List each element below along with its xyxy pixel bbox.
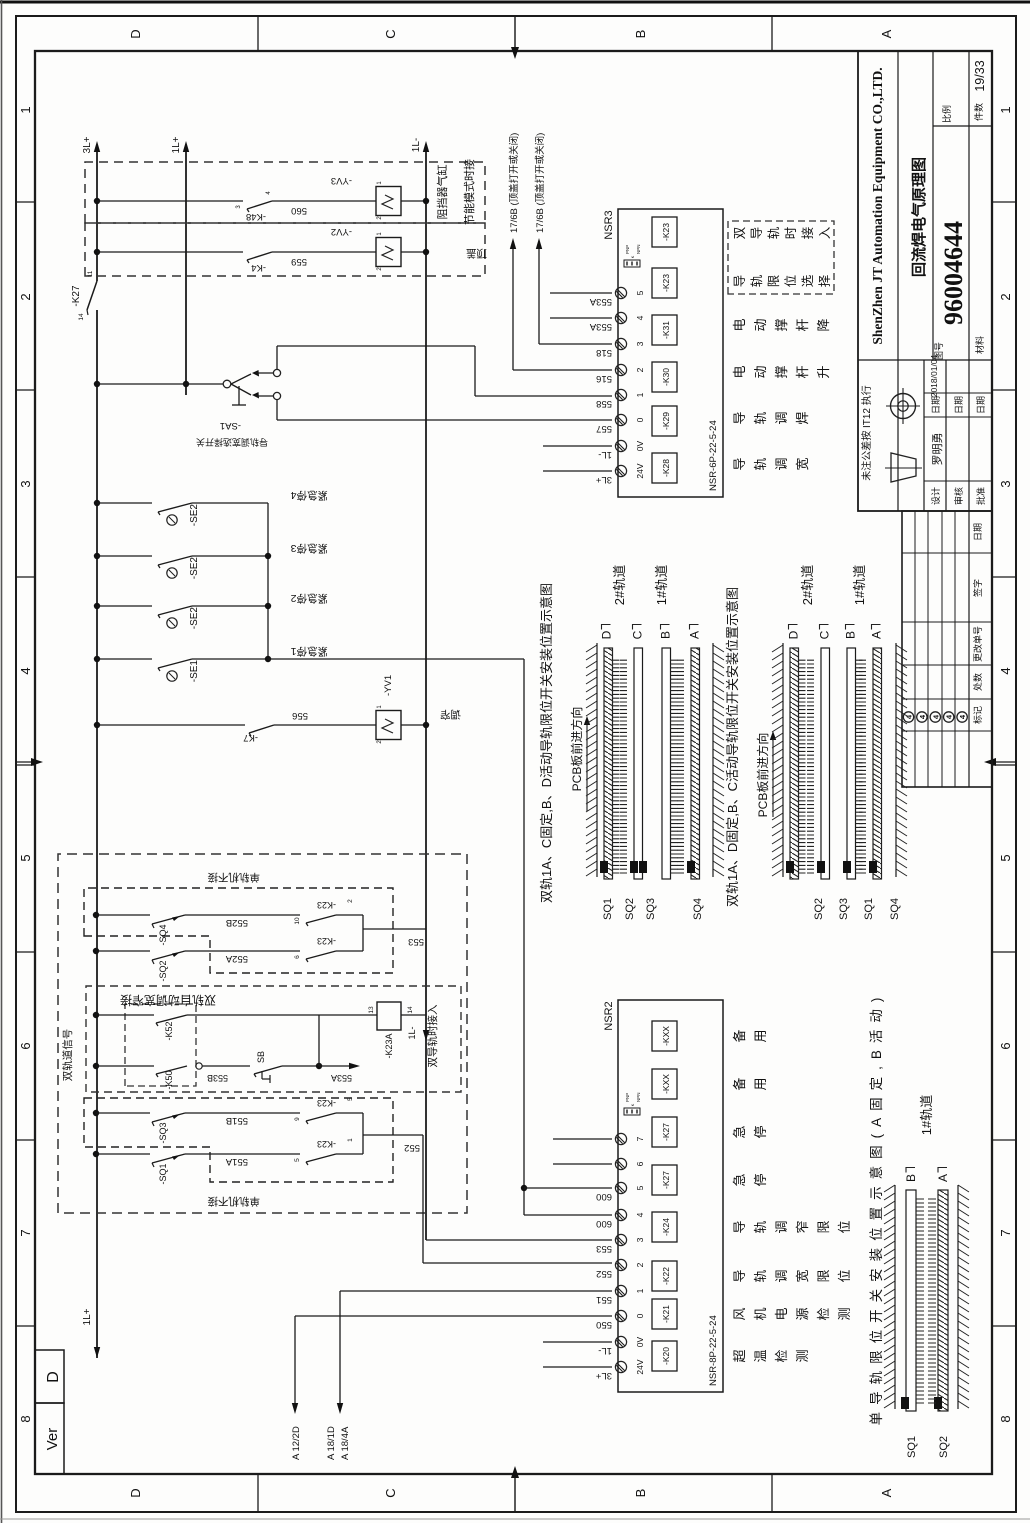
svg-text:测: 测 [837, 1307, 852, 1320]
svg-text:NSR3: NSR3 [603, 210, 615, 239]
svg-text:4: 4 [958, 714, 967, 719]
svg-text:调: 调 [774, 457, 789, 470]
svg-text:选: 选 [801, 274, 815, 287]
wire 558 from -SA1 [276, 346, 278, 369]
column ticks top [16, 1325, 35, 1327]
svg-text:撑: 撑 [774, 318, 789, 331]
svg-text:3L+: 3L+ [82, 136, 93, 153]
svg-text:4: 4 [635, 1212, 645, 1217]
svg-text:B: B [633, 30, 648, 39]
svg-text:0: 0 [635, 417, 645, 422]
sensor collector line [267, 503, 269, 659]
svg-text:-SE2: -SE2 [189, 557, 200, 580]
tie to -K52 branch [318, 1015, 320, 1066]
svg-text:PCB板前进方向: PCB板前进方向 [569, 707, 584, 792]
553A exit arrow [319, 1065, 352, 1067]
svg-text:-SA1: -SA1 [220, 420, 241, 431]
svg-text:电: 电 [732, 365, 747, 378]
svg-text:SQ1: SQ1 [863, 898, 875, 920]
rail B bar [847, 648, 856, 879]
svg-text:杆: 杆 [795, 365, 810, 378]
rail A bar [691, 648, 700, 879]
svg-text:1L-: 1L- [407, 1026, 417, 1039]
svg-text:紧急停2: 紧急停2 [291, 592, 328, 605]
rail 1L- (y=426) [425, 149, 427, 1240]
relay coil -K31 [652, 315, 677, 345]
svg-text:1L+: 1L+ [82, 1308, 93, 1325]
NSR2 stub wires 24V 0V [543, 1366, 612, 1368]
svg-text:-K23A: -K23A [384, 1033, 394, 1058]
relay coil -K28 [652, 453, 677, 483]
svg-text:553A: 553A [589, 296, 612, 307]
rail C bar [634, 648, 643, 879]
wire 552 output [363, 1134, 423, 1136]
relay coil -K29 [652, 406, 677, 436]
svg-text:2: 2 [377, 216, 383, 220]
svg-text:用: 用 [753, 1077, 768, 1090]
terminal NSR3:5 [615, 287, 626, 298]
svg-text:导轨调宽选择开关: 导轨调宽选择开关 [196, 437, 268, 448]
wire 551 to arrow A 18 [340, 1290, 612, 1292]
sheet edge artifacts [0, 1, 1030, 4]
svg-text:B: B [904, 1174, 918, 1182]
svg-text:导: 导 [733, 275, 747, 288]
svg-text:入: 入 [818, 226, 832, 239]
svg-text:限: 限 [816, 1269, 831, 1282]
svg-text:7: 7 [18, 1229, 33, 1236]
svg-text:D: D [128, 1488, 143, 1497]
svg-text:2: 2 [998, 293, 1013, 300]
rail A bar [873, 648, 882, 879]
svg-text:3: 3 [635, 1237, 645, 1242]
svg-text:14: 14 [407, 1006, 414, 1014]
svg-text:A: A [879, 29, 894, 38]
rail D bar [790, 648, 799, 879]
svg-text:551A: 551A [225, 1156, 248, 1167]
svg-text:SQ4: SQ4 [889, 898, 901, 920]
svg-text:轨: 轨 [767, 226, 781, 239]
svg-text:设计: 设计 [930, 487, 941, 505]
svg-text:5: 5 [294, 1158, 301, 1162]
svg-text:源: 源 [795, 1307, 810, 1320]
svg-text:双导轨时接入: 双导轨时接入 [426, 1004, 439, 1067]
svg-text:节能模式时接: 节能模式时接 [462, 159, 476, 225]
terminal NSR2:5 [615, 1182, 626, 1193]
svg-text:19/33: 19/33 [973, 60, 987, 91]
svg-text:紧急停1: 紧急停1 [291, 645, 328, 658]
svg-text:1L-: 1L- [598, 1345, 612, 1356]
svg-text:SQ1: SQ1 [906, 1436, 918, 1458]
fixed rail hatch line [895, 643, 897, 877]
svg-text:3: 3 [635, 341, 645, 346]
dashed box2 双轨自动调宽窄接 [86, 986, 461, 1092]
svg-text:-K23: -K23 [317, 1098, 336, 1108]
svg-text:1#轨道: 1#轨道 [852, 565, 867, 605]
rail B bar [906, 1190, 916, 1411]
svg-text:接: 接 [800, 226, 815, 239]
svg-text:5: 5 [635, 290, 645, 295]
branch -SQ4 wire 552B [93, 912, 99, 918]
svg-text:1L+: 1L+ [171, 136, 182, 153]
svg-text:检: 检 [774, 1349, 789, 1362]
svg-text:回流焊电气原理图: 回流焊电气原理图 [910, 157, 928, 277]
fixed rail hatch line [894, 1185, 896, 1409]
svg-text:600: 600 [596, 1191, 612, 1202]
svg-text:6: 6 [635, 1161, 645, 1166]
svg-text:557: 557 [596, 423, 612, 434]
svg-text:C: C [383, 1488, 398, 1497]
svg-text:C: C [818, 630, 832, 639]
chain down to 600 run [268, 658, 524, 660]
rail B bar [662, 648, 671, 879]
svg-text:10: 10 [294, 917, 301, 925]
svg-text:轨: 轨 [753, 1220, 768, 1233]
svg-text:3L+: 3L+ [595, 1370, 612, 1381]
dashed box YV3 [85, 162, 485, 223]
svg-text:罗明勇: 罗明勇 [931, 433, 944, 466]
svg-text:4: 4 [918, 714, 927, 719]
svg-text:备: 备 [732, 1077, 747, 1090]
revision boxes Ver / D [35, 1403, 64, 1474]
svg-text:动: 动 [753, 318, 768, 331]
svg-text:PNP: PNP [625, 245, 630, 254]
svg-text:553: 553 [408, 936, 424, 947]
wire 553 continues on 1L- level to terminal [426, 1239, 612, 1241]
svg-text:-YV2: -YV2 [331, 226, 352, 237]
svg-text:杆: 杆 [795, 318, 810, 331]
svg-text:-K23: -K23 [661, 223, 671, 241]
wire 552 jog [422, 1135, 424, 1263]
relay coil -K27 [652, 1117, 677, 1147]
svg-text:553A: 553A [589, 321, 612, 332]
relay coil -K23 [652, 217, 677, 247]
svg-text:C: C [383, 29, 398, 38]
svg-text:D: D [128, 29, 143, 38]
branch -SQ3 wire 551B [93, 1110, 99, 1116]
svg-text:导: 导 [732, 1220, 747, 1233]
svg-text:558: 558 [596, 398, 612, 409]
svg-text:0V: 0V [635, 1336, 645, 1347]
svg-text:C: C [631, 630, 645, 639]
svg-text:4: 4 [18, 667, 33, 674]
branch -YV3 [94, 198, 100, 204]
svg-text:552A: 552A [225, 953, 248, 964]
svg-text:2: 2 [635, 1262, 645, 1267]
terminal NSR3:24V [615, 465, 626, 476]
svg-text:5: 5 [635, 1185, 645, 1190]
svg-text:550: 550 [596, 1319, 612, 1330]
svg-text:D: D [600, 630, 614, 639]
svg-text:双轨自动调宽窄接: 双轨自动调宽窄接 [120, 993, 216, 1008]
svg-text:轨: 轨 [753, 411, 768, 424]
SB pushbutton [254, 1066, 282, 1074]
svg-text:-K52: -K52 [164, 1021, 174, 1040]
svg-text:急: 急 [732, 1125, 747, 1138]
terminal NSR2:0V [615, 1336, 626, 1347]
svg-text:温: 温 [753, 1349, 768, 1362]
svg-text:1: 1 [377, 232, 383, 236]
svg-text:A 18/4A: A 18/4A [340, 1426, 351, 1460]
revision circles [903, 712, 913, 722]
PNP/NPN dip icon NSR2 [624, 1108, 640, 1115]
svg-text:1L-: 1L- [598, 449, 612, 460]
svg-text:5: 5 [998, 854, 1013, 861]
svg-text:-SE2: -SE2 [189, 607, 200, 630]
svg-text:位: 位 [837, 1269, 852, 1282]
svg-text:调: 调 [774, 411, 789, 424]
svg-text:-K23: -K23 [317, 900, 336, 910]
svg-text:-KXX: -KXX [661, 1074, 671, 1094]
svg-text:553: 553 [596, 1243, 612, 1254]
svg-text:-KXX: -KXX [661, 1026, 671, 1046]
svg-text:1L-: 1L- [411, 138, 422, 152]
svg-text:4: 4 [931, 714, 940, 719]
rail 3L+ (y=97) [96, 310, 98, 1358]
svg-text:NSR-8P-22-5-24: NSR-8P-22-5-24 [708, 1315, 719, 1386]
svg-text:4: 4 [998, 667, 1013, 674]
svg-text:-YV3: -YV3 [331, 175, 352, 186]
svg-text:4: 4 [945, 714, 954, 719]
relay coil -K30 [652, 362, 677, 392]
svg-text:Ver: Ver [44, 1428, 61, 1451]
svg-text:0V: 0V [635, 440, 645, 451]
projection symbol cone [891, 453, 916, 482]
svg-text:日期: 日期 [976, 396, 986, 414]
dashed box1 单轨机不接 (SQ4/SQ2) [84, 888, 393, 973]
svg-text:停: 停 [753, 1173, 768, 1186]
svg-text:24V: 24V [635, 1359, 645, 1374]
svg-text:B: B [659, 631, 673, 639]
svg-text:更改单号: 更改单号 [972, 626, 983, 662]
rail D bar [604, 648, 613, 879]
svg-text:-SQ1: -SQ1 [158, 1163, 168, 1184]
svg-text:SQ3: SQ3 [645, 898, 657, 920]
svg-text:6: 6 [294, 955, 301, 959]
svg-text:停: 停 [753, 1125, 768, 1138]
svg-text:电: 电 [774, 1307, 789, 1320]
svg-text:SQ4: SQ4 [692, 898, 704, 920]
svg-text:PNP: PNP [625, 1093, 630, 1102]
svg-text:NPN: NPN [636, 244, 641, 254]
svg-text:553A: 553A [331, 1073, 352, 1083]
box2: -K50 branch [93, 1063, 99, 1069]
svg-text:导: 导 [750, 227, 764, 240]
svg-text:-K30: -K30 [661, 368, 671, 386]
terminal block NSR3 [618, 209, 723, 497]
terminal NSR3:0V [615, 440, 626, 451]
svg-text:双: 双 [733, 226, 747, 239]
svg-text:急: 急 [732, 1173, 747, 1186]
svg-text:-SE2: -SE2 [189, 504, 200, 527]
svg-text:7: 7 [635, 1136, 645, 1141]
contact -K27 in rail [87, 281, 97, 310]
svg-text:调: 调 [774, 1220, 789, 1233]
svg-text:电: 电 [732, 318, 747, 331]
svg-text:2: 2 [635, 367, 645, 372]
svg-text:3: 3 [18, 480, 33, 487]
rail 1L+ (y=186) [185, 149, 187, 395]
svg-text:SB: SB [256, 1051, 266, 1063]
terminal NSR2:2 [615, 1259, 626, 1270]
svg-text:备: 备 [732, 1029, 747, 1042]
svg-text:-K27: -K27 [661, 1171, 671, 1189]
sensor branch -SE1 紧急停1 [94, 656, 100, 662]
svg-text:-K50: -K50 [164, 1070, 174, 1089]
svg-text:2: 2 [18, 293, 33, 300]
rail A bar [938, 1190, 948, 1411]
svg-text:标记: 标记 [972, 706, 983, 724]
svg-text:552: 552 [596, 1268, 612, 1279]
title block lines [897, 51, 899, 511]
svg-text:B: B [844, 631, 858, 639]
svg-text:单轨机不接: 单轨机不接 [207, 1195, 260, 1208]
svg-text:日期: 日期 [954, 396, 964, 414]
box2: -K52 branch [93, 1012, 99, 1018]
branch -SQ1 wire 551A [93, 1151, 99, 1157]
svg-text:-K29: -K29 [661, 412, 671, 430]
svg-text:D: D [45, 1371, 62, 1383]
-SA1 selector switch [94, 381, 100, 387]
NSR2 stub wires 6 7 [553, 1163, 612, 1165]
svg-text:调: 调 [774, 1269, 789, 1282]
terminal NSR2:3 [615, 1234, 626, 1245]
svg-text:5: 5 [347, 1097, 354, 1101]
svg-text:3: 3 [236, 205, 242, 209]
svg-text:1: 1 [347, 1138, 354, 1142]
svg-text:-K27: -K27 [661, 1123, 671, 1141]
wire 516 with 17/6B arrow [513, 369, 612, 371]
svg-text:17/6B (顶盖打开或关闭): 17/6B (顶盖打开或关闭) [508, 133, 520, 233]
svg-text:NPN: NPN [636, 1092, 641, 1102]
svg-text:4: 4 [266, 191, 272, 195]
svg-text:6: 6 [998, 1042, 1013, 1049]
svg-text:2#轨道: 2#轨道 [612, 565, 627, 605]
svg-text:轨: 轨 [750, 274, 764, 287]
svg-text:-K31: -K31 [661, 321, 671, 339]
relay coil -K23 [652, 268, 677, 298]
svg-text:556: 556 [292, 710, 308, 721]
svg-text:限: 限 [816, 1220, 831, 1233]
svg-text:比例: 比例 [941, 105, 952, 123]
svg-text:560: 560 [291, 205, 307, 216]
svg-text:-K7: -K7 [243, 732, 258, 743]
svg-text:升: 升 [816, 365, 831, 378]
svg-text:A: A [879, 1488, 894, 1497]
svg-text:552: 552 [404, 1142, 420, 1153]
rail C bar [821, 648, 830, 879]
svg-text:2#轨道: 2#轨道 [800, 565, 815, 605]
svg-text:A: A [870, 631, 884, 639]
row ticks and letters [257, 1474, 259, 1512]
svg-text:-K20: -K20 [661, 1347, 671, 1365]
svg-text:1: 1 [635, 1288, 645, 1293]
svg-text:A: A [688, 631, 702, 639]
svg-text:2: 2 [377, 267, 383, 271]
svg-text:-YV1: -YV1 [383, 675, 394, 696]
svg-text:阻挡器气缸: 阻挡器气缸 [435, 165, 449, 220]
terminal NSR2:4 [615, 1209, 626, 1220]
relay coil -K24 [652, 1212, 677, 1242]
svg-text:-K48: -K48 [246, 211, 266, 222]
sensor branch -SE2 紧急停4 [94, 500, 100, 506]
fixed rail hatch line [712, 643, 714, 877]
svg-text:降: 降 [816, 318, 831, 331]
svg-text:1: 1 [377, 705, 383, 709]
svg-text:0: 0 [635, 1313, 645, 1318]
svg-text:SQ2: SQ2 [938, 1436, 950, 1458]
wire 518 with 17/6B arrow [539, 343, 612, 345]
svg-text:双轨1A、C固定,B、D活动导轨限位开关安装位置示意图: 双轨1A、C固定,B、D活动导轨限位开关安装位置示意图 [539, 583, 554, 903]
svg-text:-K24: -K24 [661, 1218, 671, 1236]
svg-text:双轨道信号: 双轨道信号 [61, 1029, 74, 1082]
svg-text:顶盖: 顶盖 [466, 247, 488, 260]
svg-text:551B: 551B [226, 1115, 248, 1126]
svg-text:NSR-6P-22-5-24: NSR-6P-22-5-24 [708, 420, 719, 491]
svg-text:3L+: 3L+ [595, 474, 612, 485]
svg-text:测: 测 [795, 1349, 810, 1362]
svg-text:-SQ2: -SQ2 [158, 960, 168, 981]
svg-text:A 18/1D: A 18/1D [326, 1426, 337, 1460]
dashed box YV2 [85, 223, 485, 276]
svg-text:调窄: 调窄 [440, 708, 461, 721]
svg-text:单轨机不接: 单轨机不接 [207, 871, 260, 884]
dashed box3 单轨机不接 (SQ3/SQ1) [84, 1098, 393, 1182]
PNP/NPN dip icon NSR3 [624, 260, 640, 267]
svg-text:8: 8 [998, 1415, 1013, 1422]
sensor branch -SE2 紧急停2 [94, 603, 100, 609]
svg-text:件数: 件数 [973, 103, 984, 121]
terminal NSR2:24V [615, 1361, 626, 1372]
relay coil -KXX [652, 1069, 677, 1099]
wire 550 to arrow A 12/2D [295, 1315, 612, 1317]
svg-text:600: 600 [596, 1218, 612, 1229]
svg-text:时: 时 [784, 226, 798, 239]
svg-text:审核: 审核 [953, 487, 964, 505]
terminal NSR3:3 [615, 338, 626, 349]
svg-text:窄: 窄 [795, 1220, 810, 1233]
svg-text:SQ2: SQ2 [813, 898, 825, 920]
svg-text:2: 2 [347, 899, 354, 903]
terminal NSR2:6 [615, 1158, 626, 1169]
svg-text:518: 518 [596, 347, 612, 358]
svg-text:7: 7 [998, 1229, 1013, 1236]
terminal NSR3:0 [615, 414, 626, 425]
big dashed box 双轨道信号 [58, 854, 467, 1213]
svg-text:导: 导 [732, 457, 747, 470]
svg-text:2: 2 [377, 740, 383, 744]
terminal NSR3:1 [615, 389, 626, 400]
wire 557 from -SA1 [276, 400, 278, 420]
svg-text:K: K [630, 1103, 635, 1106]
svg-text:5: 5 [18, 854, 33, 861]
svg-text:ShenZhen JT Automation Equipme: ShenZhen JT Automation Equipment CO.,LTD… [870, 67, 885, 344]
svg-text:-K4: -K4 [251, 262, 266, 273]
svg-text:紧急停3: 紧急停3 [291, 542, 328, 555]
svg-text:-K23: -K23 [317, 936, 336, 946]
svg-text:1: 1 [18, 106, 33, 113]
svg-text:-K23: -K23 [317, 1139, 336, 1149]
fixed rail hatch line [596, 643, 598, 877]
terminal NSR2:1 [615, 1285, 626, 1296]
svg-text:位: 位 [837, 1220, 852, 1233]
svg-text:6: 6 [18, 1042, 33, 1049]
svg-text:-K21: -K21 [661, 1305, 671, 1323]
svg-text:焊: 焊 [795, 411, 810, 424]
svg-text:宽: 宽 [795, 1269, 810, 1282]
svg-text:机: 机 [753, 1307, 768, 1320]
terminal NSR3:4 [615, 312, 626, 323]
svg-text:17/6B (顶盖打开或关闭): 17/6B (顶盖打开或关闭) [534, 133, 546, 233]
